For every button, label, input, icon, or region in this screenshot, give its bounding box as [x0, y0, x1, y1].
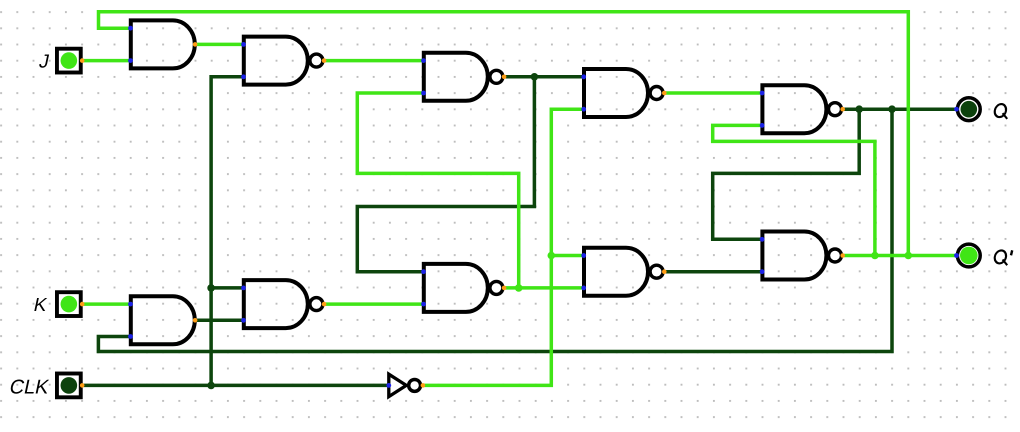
NAND gate U6 — [421, 264, 506, 312]
AND gate U1 — [128, 20, 197, 68]
wire Q feedback to U10 input A — [713, 109, 860, 239]
wire CLK pin to NOT1 input — [82, 384, 389, 388]
wire Q feedback to U3 input B — [98, 109, 892, 351]
label Q — [994, 104, 1007, 119]
wire U3 output to U4 input B — [195, 319, 244, 323]
wire CLK branch to U4 input A — [211, 286, 244, 290]
wire U6 output to U8 input B — [504, 286, 584, 290]
input pin CLK — [57, 374, 85, 398]
AND gate U3 — [128, 296, 197, 344]
input pin K — [57, 292, 85, 316]
wire Q' feedback top run to U1 input A — [99, 12, 909, 256]
junction Q wire branch 2 — [888, 105, 896, 113]
junction CLK at x211 — [207, 382, 215, 390]
junction U6 output branch — [515, 284, 523, 292]
svg-text:CLK: CLK — [7, 377, 51, 399]
input pin J — [57, 49, 85, 73]
NAND gate U2 — [241, 37, 326, 85]
wire CLK-inv branch to U8 input A — [551, 254, 584, 258]
wire pin K to U3 input A — [82, 302, 131, 306]
NAND gate U8 — [581, 248, 666, 296]
junction CLK-inv branch — [548, 252, 556, 260]
wire U5 output cross to U6 input A — [357, 77, 534, 272]
junction Q wire branch 1 — [855, 105, 863, 113]
wire U8 output to U10 input B — [664, 270, 762, 274]
NAND gate U9 — [760, 85, 845, 133]
wire U5 output to U7 input A — [504, 75, 584, 79]
wire pin J to U1 input B — [82, 59, 131, 63]
wire U10 output to pin Q' — [843, 254, 957, 258]
NAND gate U7 — [581, 69, 666, 117]
junction Q' wire branch 2 — [905, 252, 913, 260]
wire U1 output to U2 input A — [195, 43, 244, 47]
NAND gate U5 — [421, 53, 506, 101]
wire U7 output to U9 input A — [664, 91, 762, 95]
wire U6 output cross to U5 input B — [357, 93, 518, 288]
NAND gate U4 — [241, 280, 326, 328]
junction U5 output branch — [531, 73, 539, 81]
wire U2 output to U5 input A — [324, 59, 424, 63]
wire U4 output to U6 input B — [324, 302, 424, 306]
NAND gate U10 — [760, 232, 845, 280]
output pin Q — [954, 98, 980, 121]
junction CLK at U4 branch — [207, 284, 215, 292]
wire Q' feedback to U9 input B — [713, 125, 875, 255]
wire NOT1 output up to U7 input B — [422, 109, 584, 385]
junction Q' wire branch 1 — [871, 252, 879, 260]
NOT gate NOT1 — [386, 374, 425, 396]
label Q' — [994, 250, 1012, 265]
wire CLK up to U2 input B — [211, 77, 244, 386]
output pin Q' — [954, 244, 980, 267]
wire U9 output to pin Q — [843, 107, 957, 111]
